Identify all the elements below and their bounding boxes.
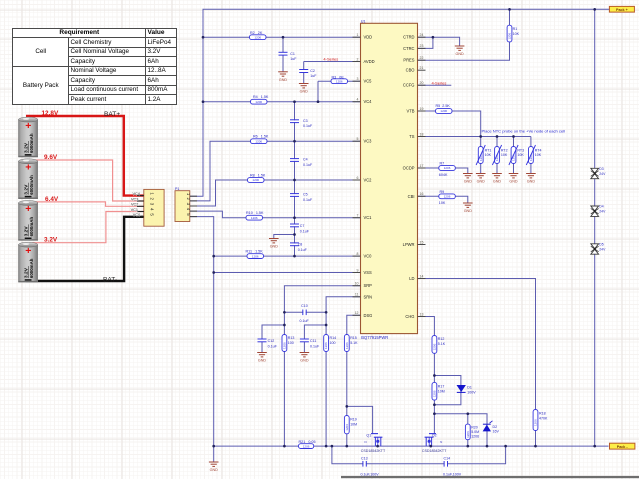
svg-text:3: 3 <box>357 77 359 81</box>
svg-text:R12: R12 <box>438 337 445 341</box>
svg-text:LD: LD <box>409 276 414 281</box>
svg-text:19: 19 <box>420 107 424 111</box>
svg-text:10K: 10K <box>485 153 492 157</box>
svg-text:R9: R9 <box>440 190 445 194</box>
svg-text:6000mAh: 6000mAh <box>29 133 34 153</box>
svg-text:D2: D2 <box>493 425 498 429</box>
svg-text:CCFG: CCFG <box>403 83 415 88</box>
svg-text:0.1uF: 0.1uF <box>303 198 313 202</box>
svg-text:C12: C12 <box>268 339 275 343</box>
svg-text:23: 23 <box>420 44 424 48</box>
svg-text:1: 1 <box>357 33 359 37</box>
svg-text:R21 0.05: R21 0.05 <box>299 440 316 444</box>
svg-text:R8 1.5K: R8 1.5K <box>250 174 266 178</box>
svg-text:10K: 10K <box>535 153 542 157</box>
svg-text:10K: 10K <box>517 153 524 157</box>
svg-text:4-Series: 4-Series <box>323 56 338 61</box>
svg-text:R4 1.5K: R4 1.5K <box>253 95 269 99</box>
svg-text:Place NTC probe on the +Ve nod: Place NTC probe on the +Ve node of each … <box>482 128 566 133</box>
svg-text:Q2: Q2 <box>432 434 437 438</box>
svg-text:10K: 10K <box>439 201 446 205</box>
svg-text:10M: 10M <box>438 389 445 393</box>
svg-text:BAT+: BAT+ <box>104 111 120 118</box>
svg-text:1206: 1206 <box>336 79 343 83</box>
svg-text:BQ77915PWR: BQ77915PWR <box>361 335 388 340</box>
svg-text:R20: R20 <box>471 425 478 429</box>
svg-text:14: 14 <box>420 274 424 278</box>
svg-text:VC4: VC4 <box>364 99 373 104</box>
svg-text:1206: 1206 <box>252 178 259 182</box>
svg-text:12.8V: 12.8V <box>42 110 59 117</box>
svg-text:RT2: RT2 <box>501 148 508 152</box>
svg-text:1206: 1206 <box>471 434 479 438</box>
svg-text:6000mAh: 6000mAh <box>29 217 34 237</box>
svg-text:CTRC: CTRC <box>403 46 414 51</box>
svg-text:GND: GND <box>270 245 279 249</box>
svg-text:CBO: CBO <box>406 68 415 73</box>
svg-text:R2 2K: R2 2K <box>250 31 263 35</box>
svg-text:1206: 1206 <box>345 424 349 431</box>
svg-text:470K: 470K <box>539 416 548 420</box>
svg-text:C8: C8 <box>298 243 303 247</box>
svg-text:N: N <box>440 440 442 444</box>
svg-text:0.1uF: 0.1uF <box>268 344 278 348</box>
svg-text:CBI: CBI <box>408 194 415 199</box>
svg-text:RT1: RT1 <box>485 148 492 152</box>
svg-text:+: + <box>25 203 31 215</box>
svg-text:GND: GND <box>300 90 309 94</box>
svg-text:C11: C11 <box>310 339 316 343</box>
svg-text:R17: R17 <box>438 385 445 389</box>
svg-text:604K: 604K <box>439 173 448 177</box>
svg-text:11: 11 <box>355 293 359 297</box>
svg-text:4-Series: 4-Series <box>432 81 447 86</box>
svg-text:VTB: VTB <box>407 109 415 114</box>
svg-text:10: 10 <box>355 282 359 286</box>
svg-text:16V: 16V <box>493 430 500 434</box>
svg-text:100V: 100V <box>467 391 476 395</box>
svg-text:1206: 1206 <box>251 216 258 220</box>
svg-text:9.6V: 9.6V <box>44 154 58 161</box>
svg-text:R3 0E: R3 0E <box>332 75 345 79</box>
svg-text:1uF: 1uF <box>290 57 297 61</box>
svg-text:R19: R19 <box>350 418 357 422</box>
svg-text:N: N <box>364 440 366 444</box>
svg-text:21: 21 <box>420 66 424 70</box>
svg-text:20: 20 <box>420 81 424 85</box>
svg-text:BAT-: BAT- <box>103 277 117 284</box>
svg-text:1206: 1206 <box>508 33 512 40</box>
svg-text:R10 1.5K: R10 1.5K <box>246 211 264 215</box>
svg-text:16: 16 <box>420 192 424 196</box>
svg-text:VC4: VC4 <box>133 192 140 196</box>
svg-text:R5 2.5K: R5 2.5K <box>436 104 451 108</box>
svg-text:100: 100 <box>288 341 294 345</box>
svg-text:VC3: VC3 <box>131 197 138 201</box>
svg-text:6000mAh: 6000mAh <box>29 258 34 278</box>
svg-text:1206: 1206 <box>444 166 451 170</box>
svg-text:OCDP: OCDP <box>403 166 415 171</box>
svg-text:100: 100 <box>330 341 336 345</box>
svg-text:GND: GND <box>258 359 267 363</box>
svg-text:1206: 1206 <box>444 194 451 198</box>
svg-text:GND: GND <box>455 52 464 56</box>
svg-text:5: 5 <box>357 137 359 141</box>
svg-text:VC1: VC1 <box>364 215 373 220</box>
svg-text:GND: GND <box>477 180 486 184</box>
svg-text:LPWR: LPWR <box>403 242 415 247</box>
svg-text:GND: GND <box>509 180 518 184</box>
svg-text:15: 15 <box>420 240 424 244</box>
svg-text:VC2: VC2 <box>131 203 138 207</box>
svg-text:0.1uF,100V: 0.1uF,100V <box>443 472 462 476</box>
svg-text:Q1: Q1 <box>366 433 371 437</box>
svg-text:VC2: VC2 <box>364 178 373 183</box>
svg-text:22: 22 <box>420 56 424 60</box>
svg-text:6.4V: 6.4V <box>45 196 59 203</box>
svg-text:17: 17 <box>420 164 424 168</box>
svg-text:D1: D1 <box>467 386 472 390</box>
svg-text:0.1uF,100V: 0.1uF,100V <box>361 472 380 476</box>
svg-text:13: 13 <box>420 312 424 316</box>
svg-text:RT4: RT4 <box>535 148 542 152</box>
svg-text:5.0M: 5.0M <box>471 430 479 434</box>
svg-text:7: 7 <box>357 214 359 218</box>
svg-text:TS: TS <box>409 134 415 139</box>
svg-text:3.2V: 3.2V <box>44 237 58 244</box>
svg-text:DSG: DSG <box>364 313 373 318</box>
svg-text:1206: 1206 <box>534 419 538 426</box>
svg-text:24V: 24V <box>599 172 606 176</box>
svg-text:VC0: VC0 <box>364 254 373 259</box>
svg-text:R1: R1 <box>513 27 518 31</box>
svg-text:AVDD: AVDD <box>364 59 375 64</box>
svg-text:0.1uF: 0.1uF <box>298 248 308 252</box>
svg-text:R18: R18 <box>539 412 546 416</box>
svg-text:0.1uF: 0.1uF <box>303 124 313 128</box>
svg-text:24V: 24V <box>599 248 606 252</box>
svg-text:C5: C5 <box>303 193 308 197</box>
svg-text:VC1: VC1 <box>131 208 138 212</box>
svg-text:VC0: VC0 <box>133 213 140 217</box>
svg-text:GND: GND <box>300 359 309 363</box>
svg-text:PRES: PRES <box>403 58 414 63</box>
svg-text:GND: GND <box>493 180 502 184</box>
svg-text:1206: 1206 <box>345 342 349 349</box>
svg-text:P1: P1 <box>175 187 179 191</box>
svg-text:24: 24 <box>420 33 424 37</box>
svg-text:R7: R7 <box>440 162 445 166</box>
svg-text:RT3: RT3 <box>517 148 524 152</box>
svg-text:SRN: SRN <box>364 294 373 299</box>
svg-text:R15: R15 <box>350 336 357 340</box>
svg-text:C10: C10 <box>301 304 308 308</box>
svg-text:10M: 10M <box>350 422 357 426</box>
svg-text:SRP: SRP <box>364 283 373 288</box>
svg-text:1uF: 1uF <box>310 74 317 78</box>
svg-text:24V: 24V <box>599 210 606 214</box>
svg-text:C1: C1 <box>290 52 295 56</box>
svg-text:0.1uF: 0.1uF <box>300 319 310 323</box>
svg-text:5.1K: 5.1K <box>350 341 358 345</box>
svg-text:D4: D4 <box>599 205 603 209</box>
svg-text:+: + <box>25 162 31 174</box>
svg-text:U1: U1 <box>361 20 366 24</box>
svg-text:1206: 1206 <box>440 109 447 113</box>
svg-text:CHG: CHG <box>405 314 414 319</box>
svg-text:4: 4 <box>357 98 359 102</box>
svg-text:1206: 1206 <box>433 390 437 397</box>
svg-text:6000mAh: 6000mAh <box>29 175 34 195</box>
svg-text:VSS: VSS <box>364 270 372 275</box>
svg-text:Pack -: Pack - <box>617 445 629 449</box>
svg-text:Pack +: Pack + <box>616 8 628 12</box>
svg-text:5.1K: 5.1K <box>438 342 446 346</box>
svg-text:1206: 1206 <box>252 254 259 258</box>
svg-text:CTRD: CTRD <box>403 35 414 40</box>
svg-text:D3: D3 <box>599 167 603 171</box>
svg-text:1206: 1206 <box>254 35 261 39</box>
svg-text:GND: GND <box>464 209 473 213</box>
svg-text:+: + <box>25 245 31 257</box>
svg-text:8: 8 <box>357 252 359 256</box>
svg-text:C2: C2 <box>310 69 315 73</box>
svg-text:6: 6 <box>357 176 359 180</box>
svg-text:12: 12 <box>355 311 359 315</box>
svg-text:GND: GND <box>527 180 536 184</box>
svg-text:C14: C14 <box>444 456 451 460</box>
svg-text:1206: 1206 <box>303 444 310 448</box>
svg-text:R11 1.5K: R11 1.5K <box>246 250 264 254</box>
svg-text:10K: 10K <box>513 32 520 36</box>
svg-text:VC5: VC5 <box>364 79 373 84</box>
svg-text:VDD: VDD <box>364 35 373 40</box>
svg-text:1206: 1206 <box>255 100 262 104</box>
svg-text:0.1uF: 0.1uF <box>300 229 310 233</box>
svg-text:D5: D5 <box>599 243 603 247</box>
svg-text:1206: 1206 <box>433 343 437 350</box>
svg-text:CSD18542KTT: CSD18542KTT <box>422 449 447 453</box>
svg-text:GND: GND <box>464 180 473 184</box>
svg-text:GND: GND <box>279 78 288 82</box>
svg-text:1206: 1206 <box>255 139 262 143</box>
svg-text:C13: C13 <box>361 456 368 460</box>
svg-text:CSD18542KTT: CSD18542KTT <box>361 449 386 453</box>
svg-text:C7: C7 <box>300 224 305 228</box>
svg-text:GND: GND <box>210 468 219 472</box>
svg-text:+: + <box>25 120 31 132</box>
svg-text:1206: 1206 <box>466 431 470 438</box>
svg-text:1206: 1206 <box>283 342 287 349</box>
svg-text:R6 1.5K: R6 1.5K <box>253 135 269 139</box>
svg-text:R13: R13 <box>288 336 295 340</box>
svg-text:C3: C3 <box>303 119 308 123</box>
svg-text:0.1uF: 0.1uF <box>303 163 313 167</box>
svg-text:2: 2 <box>357 57 359 61</box>
svg-text:0.1uF: 0.1uF <box>310 344 320 348</box>
svg-text:1206: 1206 <box>324 342 328 349</box>
svg-text:9: 9 <box>357 268 359 272</box>
svg-text:18: 18 <box>420 132 424 136</box>
svg-text:R14: R14 <box>330 336 337 340</box>
svg-text:VC3: VC3 <box>364 139 373 144</box>
svg-text:C4: C4 <box>303 158 308 162</box>
svg-text:10K: 10K <box>501 153 508 157</box>
